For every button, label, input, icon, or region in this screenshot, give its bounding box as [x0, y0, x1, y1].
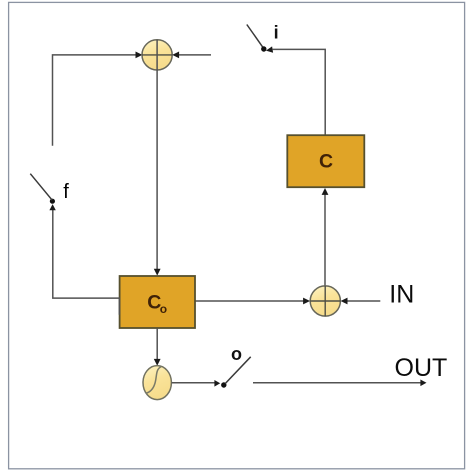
- svg-text:C: C: [319, 150, 333, 172]
- svg-text:o: o: [231, 344, 242, 364]
- svg-text:o: o: [160, 302, 167, 316]
- svg-text:f: f: [63, 181, 69, 203]
- svg-text:i: i: [274, 23, 279, 43]
- svg-text:OUT: OUT: [395, 354, 448, 382]
- svg-text:IN: IN: [389, 281, 414, 309]
